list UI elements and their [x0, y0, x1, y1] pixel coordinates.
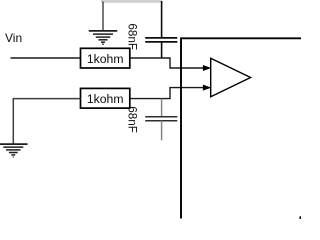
- wire R2 to op-amp U1 -input (with jog): [130, 88, 204, 99]
- capacitor C1: [145, 1, 177, 58]
- ground G2: [0, 144, 28, 157]
- subcircuit box (partially visible large rectangle): [181, 38, 302, 218]
- svg-text:1kohm: 1kohm: [87, 92, 124, 106]
- svg-text:68nF: 68nF: [125, 106, 138, 133]
- wire Vin to R1: [11, 57, 81, 59]
- wire ground G1 stem: [102, 2, 104, 31]
- ground G1: [89, 31, 118, 44]
- resistor R2: [81, 88, 130, 108]
- op-amp U1: [211, 58, 251, 97]
- artifact dot bottom-right corner: [300, 216, 303, 219]
- svg-text:1kohm: 1kohm: [87, 52, 124, 66]
- arrowhead at U1 +input: [203, 65, 210, 70]
- wire R1 to op-amp U1 +input (with jog): [130, 58, 204, 68]
- svg-text:68nF: 68nF: [125, 23, 138, 50]
- capacitor C2 (gray stems, dark plates): [145, 99, 177, 141]
- resistor R1: [81, 48, 130, 68]
- arrowhead at U1 -input: [203, 85, 210, 90]
- wire R2 to ground G2: [13, 99, 80, 145]
- svg-text:Vin: Vin: [5, 31, 22, 45]
- wire top (gray) from ground G1 to capacitor C1: [101, 0, 162, 3]
